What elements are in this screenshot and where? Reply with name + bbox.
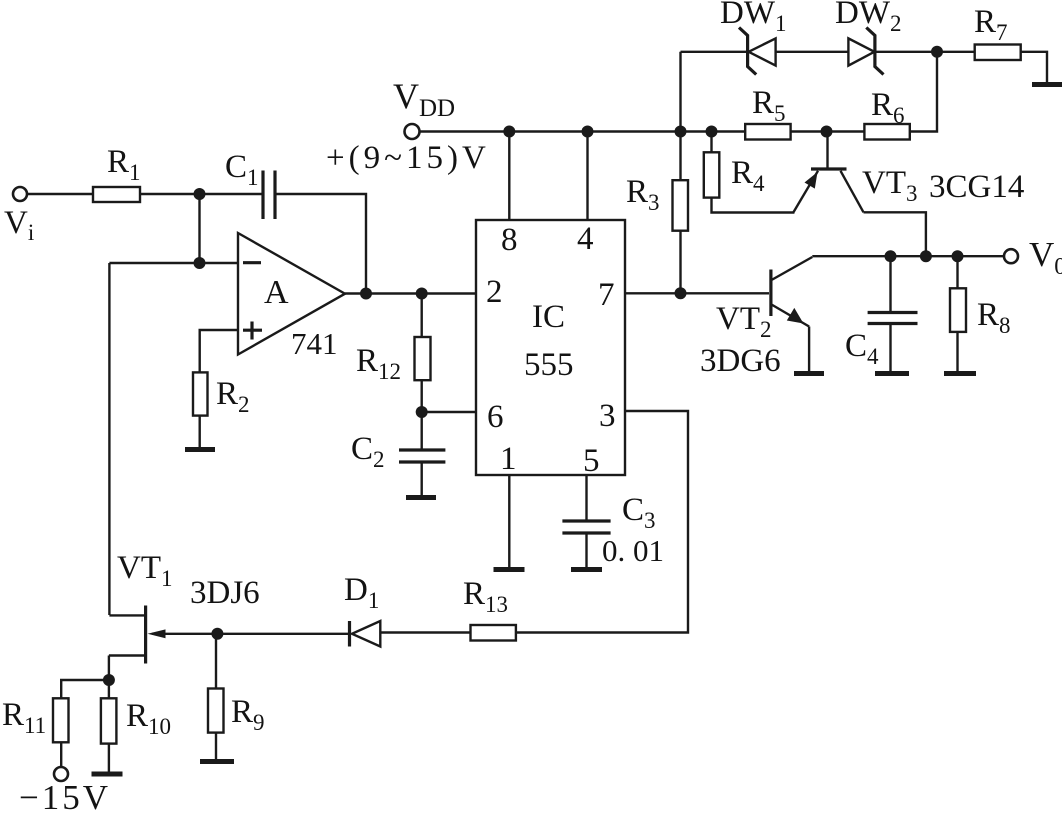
svg-text:R11: R11 bbox=[2, 697, 46, 738]
transistor VT3 3CG14 bbox=[793, 165, 1024, 213]
wire R10 to ground bbox=[108, 744, 110, 772]
resistor R7 bbox=[974, 4, 1021, 60]
svg-text:R10: R10 bbox=[126, 698, 171, 739]
svg-text:741: 741 bbox=[291, 326, 338, 361]
wire R2 to ground bbox=[198, 416, 200, 448]
resistor R6 bbox=[864, 87, 909, 140]
resistor R4 bbox=[704, 152, 765, 197]
svg-text:V0: V0 bbox=[1029, 235, 1062, 280]
terminal -15V bbox=[19, 767, 111, 814]
wire R12 to pin6 node bbox=[421, 380, 423, 412]
svg-text:3CG14: 3CG14 bbox=[929, 169, 1024, 205]
svg-text:Vi: Vi bbox=[4, 205, 34, 245]
wire source node to R11 bbox=[61, 680, 109, 698]
wire node down to R6 bbox=[910, 52, 937, 132]
ground below pin 1 bbox=[494, 567, 525, 572]
resistor R10 bbox=[101, 680, 171, 744]
node C4 junction bbox=[885, 250, 897, 262]
resistor R11 bbox=[2, 697, 69, 742]
ground below VT2 bbox=[794, 371, 824, 376]
svg-text:555: 555 bbox=[524, 347, 574, 383]
op-amp U A 741 bbox=[238, 233, 345, 361]
wire C2 to ground bbox=[421, 462, 423, 496]
svg-text:R9: R9 bbox=[231, 694, 265, 735]
svg-text:R6: R6 bbox=[871, 87, 905, 128]
node R9 junction on gate wire bbox=[211, 628, 223, 640]
node source junction bbox=[103, 674, 115, 686]
node R8 junction bbox=[952, 250, 964, 262]
svg-text:D1: D1 bbox=[344, 572, 379, 613]
wire R4 branch bbox=[710, 132, 712, 153]
node zener R7 junction bbox=[931, 46, 943, 58]
svg-text:A: A bbox=[264, 274, 289, 311]
wire DW1 to DW2 bbox=[776, 51, 849, 53]
wire inverting input bbox=[109, 262, 239, 264]
wire R11 to terminal bbox=[60, 742, 62, 767]
resistor R12 bbox=[356, 294, 431, 385]
wire R13 to D1 bbox=[380, 631, 470, 633]
svg-text:R7: R7 bbox=[974, 4, 1008, 45]
svg-text:−15V: −15V bbox=[19, 778, 111, 814]
svg-text:5: 5 bbox=[583, 443, 600, 479]
ground below C3 bbox=[571, 567, 602, 572]
gate arrow into VT1 bbox=[148, 629, 166, 638]
svg-text:R2: R2 bbox=[216, 376, 250, 417]
svg-text:1: 1 bbox=[500, 441, 517, 477]
wire C4 to ground bbox=[889, 325, 891, 373]
svg-text:7: 7 bbox=[598, 277, 615, 313]
svg-text:VT1: VT1 bbox=[117, 550, 173, 591]
ground below C4 bbox=[875, 371, 909, 376]
resistor R3 bbox=[626, 174, 688, 231]
wire pin 5 to C3 bbox=[585, 475, 587, 521]
svg-text:DW1: DW1 bbox=[720, 0, 786, 36]
ground below R8 bbox=[944, 371, 976, 376]
wire R1 to C1 bbox=[140, 193, 263, 195]
wire long left rail to VT1 drain bbox=[108, 263, 110, 615]
wire pin 4 to rail bbox=[586, 132, 588, 220]
wire pin 3 feedback loop bbox=[516, 411, 688, 633]
svg-text:R13: R13 bbox=[463, 576, 508, 617]
svg-text:C3: C3 bbox=[622, 492, 656, 533]
wire R3 to pin7 node bbox=[679, 231, 681, 294]
wire non-inverting input bbox=[200, 330, 239, 372]
wire rail up to zener branch and down to R3 bbox=[679, 52, 681, 180]
ground below C2 bbox=[406, 495, 436, 500]
svg-text:2: 2 bbox=[486, 274, 503, 310]
svg-text:4: 4 bbox=[577, 221, 594, 257]
node pin6 junction bbox=[416, 406, 428, 418]
wire pin 1 to ground bbox=[508, 475, 510, 568]
wire VDD rail bbox=[420, 130, 746, 132]
wire VT3 collector to output node bbox=[864, 212, 926, 256]
wire zener top rail bbox=[681, 51, 748, 53]
resistor R1 bbox=[93, 144, 141, 202]
svg-text:0. 01: 0. 01 bbox=[602, 533, 664, 568]
svg-text:R12: R12 bbox=[356, 343, 401, 384]
capacitor C3 bbox=[562, 492, 664, 568]
svg-text:8: 8 bbox=[501, 222, 518, 258]
ground below R2 bbox=[185, 447, 215, 452]
svg-text:C2: C2 bbox=[351, 431, 385, 472]
wire base branch to VT3 bbox=[826, 132, 828, 168]
wire pin6 bbox=[422, 411, 476, 413]
resistor R2 bbox=[193, 372, 250, 417]
zener diode DW2 bbox=[835, 0, 901, 75]
IC 555 timer bbox=[476, 220, 625, 475]
wire C1 to feedback corner bbox=[275, 194, 366, 294]
node rail pin4 bbox=[582, 126, 594, 138]
svg-text:VDD: VDD bbox=[393, 76, 455, 122]
svg-text:VT3: VT3 bbox=[862, 165, 918, 206]
ground below R10 bbox=[92, 772, 123, 777]
transistor VT1 3DJ6 JFET bbox=[109, 550, 260, 664]
svg-text:R1: R1 bbox=[107, 144, 141, 185]
capacitor C1 bbox=[225, 149, 275, 219]
svg-text:R8: R8 bbox=[977, 297, 1011, 338]
node R12 top junction bbox=[416, 288, 428, 300]
node feedback junction bbox=[360, 288, 372, 300]
svg-text:+(9~15)V: +(9~15)V bbox=[326, 140, 490, 176]
svg-text:IC: IC bbox=[532, 299, 565, 335]
supply terminal VDD bbox=[393, 76, 455, 139]
node rail R4 branch bbox=[706, 126, 718, 138]
node rail pin8 bbox=[503, 126, 515, 138]
wire op-amp output bbox=[345, 292, 476, 294]
wire R5 to R6 bbox=[791, 130, 865, 132]
ground below R9 bbox=[200, 759, 234, 764]
resistor R9 bbox=[208, 634, 265, 735]
wire R9 to ground bbox=[215, 733, 217, 760]
wire R8 to ground bbox=[956, 332, 958, 372]
node inverting input junction bbox=[194, 257, 206, 269]
wire pin 7 to VT2 base bbox=[625, 292, 769, 294]
svg-text:3DJ6: 3DJ6 bbox=[190, 575, 260, 611]
wire pin 8 to rail bbox=[508, 132, 510, 220]
svg-text:R5: R5 bbox=[752, 85, 786, 126]
svg-text:6: 6 bbox=[487, 399, 504, 435]
capacitor C4 bbox=[845, 256, 918, 369]
capacitor C2 bbox=[351, 412, 445, 472]
resistor R13 bbox=[463, 576, 516, 641]
resistor R5 bbox=[745, 85, 790, 140]
node R5-R6 junction bbox=[821, 126, 833, 138]
node pin7 R3 junction bbox=[675, 287, 687, 299]
zener diode DW1 bbox=[720, 0, 786, 75]
transistor VT2 3DG6 bbox=[700, 257, 812, 379]
wire R4 to VT3 emitter bbox=[712, 198, 795, 213]
svg-text:C1: C1 bbox=[225, 149, 259, 190]
svg-text:R4: R4 bbox=[731, 155, 765, 196]
wire VT1 source down bbox=[108, 656, 110, 681]
wire DW2 to R7 node bbox=[875, 51, 975, 53]
diode D1 bbox=[344, 572, 380, 647]
svg-text:3: 3 bbox=[599, 398, 616, 434]
output terminal V0 bbox=[1004, 235, 1062, 280]
svg-text:3DG6: 3DG6 bbox=[700, 343, 781, 379]
wire VT2 emitter to ground bbox=[808, 327, 810, 373]
wire D1 to VT1 gate bbox=[152, 633, 350, 635]
svg-text:DW2: DW2 bbox=[835, 0, 901, 36]
svg-text:C4: C4 bbox=[845, 328, 879, 369]
node R1-C1 junction bbox=[194, 188, 206, 200]
wire Vi to R1 bbox=[27, 193, 93, 195]
svg-text:VT2: VT2 bbox=[716, 301, 772, 342]
node VT3 collector junction bbox=[920, 250, 932, 262]
wire output line bbox=[812, 255, 1004, 257]
wire junction down to inverting node bbox=[198, 194, 200, 263]
wire R7 to ground bbox=[1021, 52, 1047, 83]
svg-text:R3: R3 bbox=[626, 174, 660, 215]
ground right of R7 bbox=[1032, 82, 1062, 87]
resistor R8 bbox=[950, 256, 1011, 338]
input terminal Vi bbox=[4, 187, 34, 245]
node rail DW/R3 branch bbox=[675, 126, 687, 138]
wire C3 to ground bbox=[585, 533, 587, 568]
